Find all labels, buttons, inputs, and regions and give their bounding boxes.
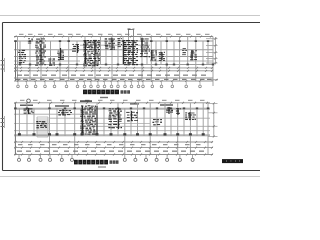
bottom plan title text — [74, 160, 78, 165]
top plan: right side dimension extension lines — [206, 38, 218, 40]
top plan: right-end leader arrow — [211, 79, 218, 81]
bottom plan: left side dimension marks — [4, 116, 6, 128]
watermark text block — [222, 159, 243, 163]
top plan: bottom dimension band lines — [14, 67, 213, 69]
top plan: vertical wall/column lines — [17, 37, 19, 82]
drawing frame border — [3, 23, 261, 171]
top plan: top dimension line — [14, 36, 213, 38]
bottom plan: annotation clusters — [24, 109, 28, 110]
top plan: bold beam vertical strokes — [40, 44, 41, 62]
top plan: roof protrusion box — [129, 30, 134, 37]
top plan: axis ticks and leaders — [17, 80, 19, 82]
paper bottom edge line — [0, 176, 260, 178]
top plan: bottom dimension numbers row1 — [17, 75, 22, 76]
top plan: column blobs on walls — [14, 40, 16, 42]
bottom plan: staircase treads — [37, 116, 48, 118]
bottom plan: axis bubble at top — [27, 99, 31, 103]
top plan: bottom dimension numbers row2 — [16, 79, 21, 80]
paper top edge line — [0, 15, 260, 17]
bottom plan: bottom dimension ticks — [15, 154, 17, 156]
bottom plan: axis leaders and bubbles — [18, 155, 20, 159]
bottom plan: bold beam vertical strokes — [96, 106, 97, 134]
top plan: dimension numbers above top dimension line — [19, 34, 24, 35]
top plan: left edge wall line — [15, 41, 17, 81]
bottom plan: vertical wall lines — [18, 108, 20, 136]
top plan: bottom dimension ticks — [15, 70, 17, 72]
top plan: axis bubbles — [17, 85, 20, 88]
bottom plan: top dimension line — [14, 102, 210, 104]
bottom plan: column blobs — [14, 107, 16, 109]
bottom plan: left edge wall line — [14, 103, 16, 155]
top plan: annotation text clusters — [19, 49, 21, 52]
bottom plan: bottom dimension numbers — [17, 151, 22, 152]
bottom plan: wall horizontal lines — [14, 107, 210, 109]
top plan: wall horizontal lines — [14, 40, 213, 42]
bottom plan: top annotation dashes — [20, 105, 33, 106]
top plan title scale text — [100, 97, 108, 98]
bottom plan: right side dimension extension lines — [213, 103, 215, 137]
top plan title text — [83, 90, 87, 95]
bottom plan: top dimension numbers — [20, 100, 25, 101]
bottom plan: bottom dimension band — [14, 141, 213, 143]
top plan: left side dimension marks — [4, 58, 6, 72]
